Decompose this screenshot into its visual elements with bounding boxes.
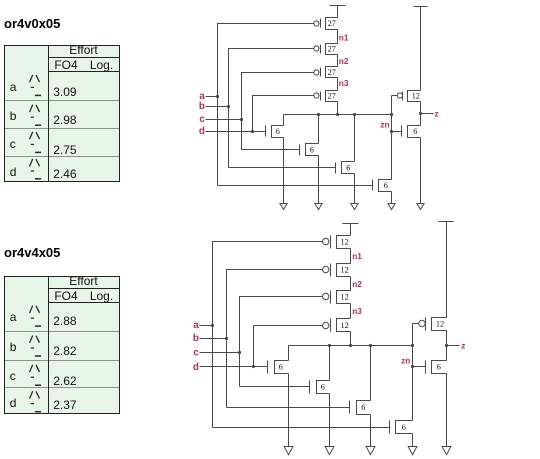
input a label (schematic 2) [193,320,199,331]
nmos N2 gate c width 6 (schematic 1) [300,144,319,156]
input c label (schematic 1) [199,114,205,125]
junction input d (schematic 2) [252,365,255,368]
junction zn rail / inverter bus [390,113,393,116]
ground (schematic 2, N2) [325,447,334,455]
input c label (schematic 2) [193,348,199,359]
nmos N4 gate a width 6 (schematic 1) [373,180,392,192]
pmos P3 gate c width 27 (schematic 1) [314,67,338,78]
svg-text:zn: zn [401,356,410,366]
junction input c [240,118,243,121]
junction input a (schematic 2) [211,324,214,327]
power vdd (schematic 1 pmos stack) [330,6,346,18]
wire inverter pmos gate (schematic 2) [413,323,419,325]
wire P2 drain to node n2 [337,55,339,67]
node z label (schematic 1) [435,109,439,119]
svg-text:d: d [193,362,199,373]
node n2 label (schematic 2) [352,279,362,289]
effort table for or4v4x05 [4,276,120,415]
svg-text:6: 6 [437,363,441,372]
wire b bus to pmos P2 gate (schematic 2) [227,270,323,408]
wire P1 drain to node n1 (schematic 2) [350,249,352,264]
svg-text:6: 6 [361,403,365,412]
junction N3 drain / zn rail [353,113,356,116]
svg-text:6: 6 [279,363,283,372]
junction inverter nmos gate tap (schematic 2) [411,365,414,368]
junction pmos stack / zn rail [336,113,339,116]
wire N2 source to ground [318,156,320,204]
pmos P4 gate d width 27 (schematic 1) [314,91,338,102]
junction input b [227,105,230,108]
ground (schematic 1, N3) [351,204,358,210]
rise/fall symbol row c (table 2) [30,365,42,386]
svg-text:b: b [193,333,199,344]
junction node z (schematic 2) [445,344,448,347]
node zn label (schematic 2) [401,356,410,366]
rise/fall symbol row a (table 1) [30,75,42,96]
power vdd (schematic 1 inverter) [414,7,428,91]
nmos N3 gate b width 6 (schematic 2) [350,401,371,415]
pmos P1 gate a width 27 (schematic 1) [314,18,338,30]
svg-text:b: b [199,101,205,112]
junction N2 drain / zn rail [317,113,320,116]
wire input a stub [206,96,218,98]
svg-text:12: 12 [341,237,349,246]
nmos N5 inverter width 6 (schematic 1) [402,126,421,138]
ground (schematic 2, N3) [366,447,375,455]
wire c bus to pmos P3 gate (schematic 2) [240,297,323,387]
svg-text:6: 6 [276,127,280,136]
node n3 label (schematic 2) [352,306,362,316]
wire P3 drain to node n3 (schematic 2) [350,304,352,319]
wire P1 drain to node n1 [337,30,339,44]
wire b bus to nmos N3 gate [229,167,336,169]
wire N3 source to ground (schematic 2) [370,415,372,447]
wire c bus to nmos N2 gate (schematic 2) [240,386,310,388]
wire inverter gate bus / N4 drain [391,96,393,180]
wire a bus to nmos N4 gate [218,185,373,187]
svg-text:a: a [193,320,199,331]
svg-text:12: 12 [412,92,420,101]
node n1 label (schematic 1) [339,32,349,42]
nmos N5 inverter width 6 (schematic 2) [426,361,447,374]
nmos N4 gate a width 6 (schematic 2) [390,421,413,434]
rise/fall symbol row d (table 1) [30,159,42,179]
nmos N3 gate b width 6 (schematic 1) [336,162,355,174]
junction inverter nmos gate tap [390,130,393,133]
pmos P3 gate c width 12 (schematic 2) [323,291,351,304]
wire N1 drain to zn rail [283,115,285,126]
pmos P2 gate b width 12 (schematic 2) [323,264,351,277]
wire input d to nmos N1 gate (schematic 2) [200,366,268,368]
input d label (schematic 1) [199,126,205,137]
svg-text:6: 6 [346,163,350,172]
node n3 label (schematic 1) [339,78,349,88]
wire N3 drain to zn rail (schematic 2) [370,346,372,401]
wire N2 drain to zn rail [318,115,320,144]
svg-text:12: 12 [436,320,444,329]
ground (schematic 1, inverter) [417,204,424,210]
svg-text:12: 12 [341,266,349,275]
wire input c stub [206,119,242,121]
wire b bus to pmos P2 gate [229,49,314,168]
svg-text:27: 27 [328,45,336,54]
svg-text:c: c [193,348,199,359]
input b label (schematic 2) [193,333,199,344]
nmos N2 gate c width 6 (schematic 2) [310,381,330,394]
wire a bus to nmos N4 gate (schematic 2) [213,427,390,429]
ground (schematic 2, N4) [408,447,417,455]
wire input c stub (schematic 2) [200,352,240,354]
svg-text:27: 27 [328,68,336,77]
svg-text:6: 6 [321,383,325,392]
svg-text:6: 6 [413,127,417,136]
wire d bus to pmos P4 gate (schematic 2) [254,326,323,367]
wire inverter nmos gate (schematic 2) [413,366,426,368]
junction input c (schematic 2) [238,351,241,354]
junction N2 drain / zn rail (schematic 2) [328,344,331,347]
svg-text:n1: n1 [352,251,362,261]
junction input a [216,95,219,98]
svg-text:z: z [435,109,439,119]
wire N1 source to ground [283,138,285,204]
svg-text:zn: zn [380,120,389,130]
wire P2 drain to node n2 (schematic 2) [350,277,352,291]
wire N3 source to ground [354,174,356,204]
pmos P1 gate a width 12 (schematic 2) [323,236,351,249]
wire c bus to pmos P3 gate [242,73,314,150]
wire N3 drain to zn rail [354,115,356,162]
wire b bus to nmos N3 gate (schematic 2) [227,407,350,409]
rise/fall symbol row b (table 2) [30,336,42,357]
wire zn rail (schematic 1) [284,114,392,116]
wire z output stub (schematic 2) [447,345,460,347]
pmos P4 gate d width 12 (schematic 2) [323,319,351,332]
wire N4 source to ground (schematic 2) [412,434,414,447]
junction input d [251,130,254,133]
wire inverter output node z [420,102,422,126]
cell name title or4v0x05 [4,16,60,31]
effort table for or4v0x05 [4,45,120,183]
wire inverter pmos gate (schematic 1) [392,95,398,97]
input a label (schematic 1) [199,91,205,102]
wire a bus to pmos P1 gate [218,24,314,186]
node zn label (schematic 1) [380,120,389,130]
wire P4 drain to zn rail (schematic 2) [350,332,352,346]
wire N1 drain to zn rail (schematic 2) [288,346,290,361]
node z label (schematic 2) [461,341,465,351]
power vdd (schematic 2 pmos stack) [343,224,359,236]
wire inverter gate bus / N4 drain (schematic 2) [412,324,414,421]
cell name title or4v4x05 [4,245,60,260]
svg-text:27: 27 [328,92,336,101]
svg-text:6: 6 [384,181,388,190]
wire inverter output node z (schematic 2) [446,331,448,361]
junction pmos stack / zn rail (schematic 2) [349,344,352,347]
wire N2 source to ground (schematic 2) [329,394,331,447]
power vdd (schematic 2 inverter) [439,222,454,318]
wire N2 drain to zn rail (schematic 2) [329,346,331,381]
wire d bus to pmos P4 gate [253,96,314,132]
pmos P5 inverter width 12 (schematic 1) [397,91,420,102]
svg-text:n3: n3 [352,306,362,316]
pmos P5 inverter width 12 (schematic 2) [419,318,447,331]
wire input b stub (schematic 2) [200,338,227,340]
wire c bus to nmos N2 gate [242,149,300,151]
rise/fall symbol row a (table 2) [30,306,42,327]
junction zn rail / inverter bus (schematic 2) [411,344,414,347]
rise/fall symbol row c (table 1) [30,132,42,153]
svg-text:d: d [199,126,205,137]
nmos N1 gate d width 6 (schematic 1) [266,126,284,138]
svg-text:27: 27 [328,19,336,28]
wire N4 source to ground [391,192,393,204]
ground (schematic 2, N1) [284,447,293,455]
ground (schematic 1, N2) [315,204,322,210]
junction node z (schematic 1) [419,112,422,115]
ground (schematic 1, N4) [388,204,395,210]
input d label (schematic 2) [193,362,199,373]
wire input d to nmos N1 gate [206,131,266,133]
svg-text:n2: n2 [339,56,349,66]
wire inverter nmos source to ground [420,138,422,204]
junction N3 drain / zn rail (schematic 2) [369,344,372,347]
wire N1 source to ground (schematic 2) [288,374,290,447]
node n2 label (schematic 1) [339,56,349,66]
svg-text:z: z [461,341,465,351]
wire inverter nmos gate (schematic 1) [392,131,402,133]
svg-text:n3: n3 [339,78,349,88]
wire zn rail (schematic 2) [289,345,413,347]
wire a bus to pmos P1 gate (schematic 2) [213,242,323,428]
ground (schematic 2, inverter) [442,447,451,455]
wire inverter nmos source to ground (schematic 2) [446,374,448,447]
wire input b stub [206,106,229,108]
wire P4 drain to zn rail [337,102,339,115]
node n1 label (schematic 2) [352,251,362,261]
input b label (schematic 1) [199,101,205,112]
nmos N1 gate d width 6 (schematic 2) [268,361,289,374]
svg-text:6: 6 [402,423,406,432]
rise/fall symbol row b (table 1) [30,105,42,126]
svg-text:n1: n1 [339,32,349,42]
svg-text:12: 12 [341,293,349,302]
pmos P2 gate b width 27 (schematic 1) [314,44,338,55]
svg-text:6: 6 [310,145,314,154]
svg-text:c: c [199,114,205,125]
rise/fall symbol row d (table 2) [30,391,42,412]
wire z output stub (schematic 1) [421,113,434,115]
ground (schematic 1, N1) [280,204,287,210]
junction input b (schematic 2) [225,337,228,340]
wire P3 drain to node n3 [337,78,339,91]
svg-text:12: 12 [341,321,349,330]
wire input a stub (schematic 2) [200,325,213,327]
svg-text:n2: n2 [352,279,362,289]
